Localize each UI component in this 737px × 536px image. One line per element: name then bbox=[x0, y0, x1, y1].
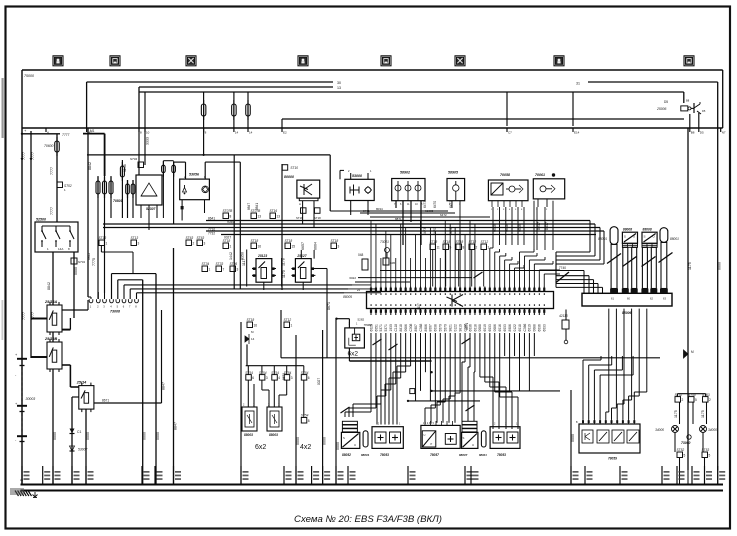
svg-text:0000: 0000 bbox=[156, 432, 160, 440]
svg-text:6019: 6019 bbox=[528, 324, 532, 332]
svg-text:A: A bbox=[299, 202, 301, 206]
svg-text:8847: 8847 bbox=[247, 203, 251, 210]
svg-text:1 1 2 3 4 5: 1 1 2 3 4 5 bbox=[423, 423, 435, 425]
svg-text:6473: 6473 bbox=[423, 228, 427, 235]
svg-text:5570: 5570 bbox=[439, 324, 443, 332]
svg-text:1: 1 bbox=[488, 246, 490, 250]
svg-text:S: S bbox=[644, 235, 646, 239]
svg-text:9819: 9819 bbox=[458, 324, 462, 332]
svg-text:6019: 6019 bbox=[483, 324, 487, 332]
svg-text:3: 3 bbox=[338, 245, 340, 249]
svg-text:1: 1 bbox=[209, 268, 211, 272]
svg-text:6038: 6038 bbox=[434, 324, 438, 332]
svg-text:6018: 6018 bbox=[473, 324, 477, 332]
svg-text:23: 23 bbox=[357, 288, 361, 292]
svg-text:5: 5 bbox=[684, 454, 686, 458]
svg-text:6036: 6036 bbox=[538, 324, 542, 332]
svg-text:8986: 8986 bbox=[424, 324, 428, 332]
svg-text:C1: C1 bbox=[77, 430, 81, 434]
svg-text:C088: C088 bbox=[419, 323, 423, 331]
svg-text:ST10: ST10 bbox=[290, 166, 298, 170]
svg-text:7732: 7732 bbox=[208, 232, 215, 236]
svg-text:30003: 30003 bbox=[26, 397, 36, 401]
svg-text:048: 048 bbox=[358, 253, 364, 257]
svg-text:S: S bbox=[343, 436, 345, 440]
svg-text:3: 3 bbox=[237, 268, 239, 272]
svg-text:U: U bbox=[633, 235, 635, 239]
svg-text:ST18: ST18 bbox=[314, 216, 321, 220]
svg-text:5371: 5371 bbox=[384, 324, 388, 332]
svg-text:14: 14 bbox=[249, 131, 253, 135]
svg-text:1146: 1146 bbox=[123, 164, 127, 172]
svg-text:16: 16 bbox=[258, 245, 262, 249]
svg-text:8: 8 bbox=[230, 215, 232, 219]
svg-text:2: 2 bbox=[682, 398, 684, 402]
svg-text:53056: 53056 bbox=[189, 173, 200, 177]
svg-text:1175: 1175 bbox=[688, 262, 692, 270]
svg-text:8007: 8007 bbox=[429, 324, 433, 332]
svg-text:D5: D5 bbox=[700, 131, 704, 135]
svg-text:8: 8 bbox=[308, 419, 310, 423]
svg-text:6472: 6472 bbox=[449, 201, 453, 208]
svg-text:8841: 8841 bbox=[255, 203, 259, 210]
svg-text:13: 13 bbox=[337, 86, 341, 90]
svg-text:6: 6 bbox=[308, 376, 310, 380]
svg-text:Схема № 20: EBS F3A/F3B (ВКЛ): Схема № 20: EBS F3A/F3B (ВКЛ) bbox=[294, 514, 442, 525]
svg-text:88003: 88003 bbox=[269, 433, 278, 437]
svg-text:88003: 88003 bbox=[244, 433, 253, 437]
svg-text:8842: 8842 bbox=[87, 253, 91, 260]
svg-text:6016: 6016 bbox=[498, 324, 502, 332]
svg-text:8671: 8671 bbox=[327, 302, 331, 310]
svg-text:0000: 0000 bbox=[143, 432, 147, 440]
svg-text:3: 3 bbox=[204, 242, 206, 246]
svg-text:31: 31 bbox=[576, 82, 580, 86]
svg-text:C118: C118 bbox=[394, 324, 398, 332]
svg-text:0000: 0000 bbox=[86, 432, 90, 440]
svg-text:8847: 8847 bbox=[174, 422, 178, 430]
svg-text:E14: E14 bbox=[574, 131, 580, 135]
svg-text:9046: 9046 bbox=[227, 220, 234, 224]
svg-text:52307: 52307 bbox=[146, 207, 157, 211]
svg-text:8817: 8817 bbox=[545, 222, 549, 230]
svg-text:7775: 7775 bbox=[92, 258, 96, 266]
svg-text:6470: 6470 bbox=[433, 228, 437, 235]
svg-text:70801: 70801 bbox=[113, 199, 123, 203]
svg-text:5: 5 bbox=[709, 454, 711, 458]
svg-text:0088: 0088 bbox=[533, 324, 537, 332]
svg-text:6033: 6033 bbox=[503, 324, 507, 332]
svg-text:16: 16 bbox=[254, 324, 258, 328]
svg-text:78059: 78059 bbox=[608, 457, 617, 461]
svg-text:B8: B8 bbox=[686, 99, 690, 103]
svg-text:6657: 6657 bbox=[301, 242, 305, 250]
svg-text:0000: 0000 bbox=[336, 442, 340, 450]
svg-text:ST01: ST01 bbox=[78, 260, 86, 264]
svg-text:30: 30 bbox=[337, 81, 341, 85]
svg-text:0000: 0000 bbox=[74, 267, 78, 275]
svg-text:88008: 88008 bbox=[643, 228, 652, 232]
svg-text:7777: 7777 bbox=[22, 312, 26, 320]
svg-text:8034: 8034 bbox=[376, 207, 383, 211]
svg-text:7740: 7740 bbox=[559, 266, 566, 270]
svg-text:11: 11 bbox=[437, 246, 441, 250]
svg-text:4x2: 4x2 bbox=[300, 444, 311, 451]
svg-text:2: 2 bbox=[193, 242, 195, 246]
svg-text:U: U bbox=[424, 433, 426, 437]
svg-text:8641: 8641 bbox=[208, 217, 215, 221]
svg-text:1175: 1175 bbox=[674, 410, 678, 418]
svg-text:8471: 8471 bbox=[363, 209, 370, 213]
svg-text:8986: 8986 bbox=[508, 324, 512, 332]
svg-text:5282: 5282 bbox=[358, 318, 365, 322]
svg-text:53000: 53000 bbox=[352, 174, 362, 178]
svg-text:25/13B: 25/13B bbox=[44, 337, 58, 341]
svg-text:S: S bbox=[624, 235, 626, 239]
svg-text:52500: 52500 bbox=[36, 218, 46, 222]
svg-text:5371: 5371 bbox=[379, 324, 383, 332]
svg-text:0086: 0086 bbox=[404, 324, 408, 332]
svg-text:1442: 1442 bbox=[229, 252, 233, 260]
svg-text:8217: 8217 bbox=[537, 222, 541, 230]
svg-text:78060: 78060 bbox=[364, 323, 373, 327]
svg-text:6664: 6664 bbox=[314, 242, 318, 250]
svg-text:M1: M1 bbox=[90, 129, 95, 133]
svg-text:A1: A1 bbox=[20, 478, 24, 482]
svg-text:6472: 6472 bbox=[449, 228, 453, 235]
svg-text:88007: 88007 bbox=[459, 453, 468, 457]
svg-text:5: 5 bbox=[695, 398, 697, 402]
svg-text:8871: 8871 bbox=[465, 323, 469, 330]
svg-text:C7: C7 bbox=[508, 131, 512, 135]
svg-text:25/13A: 25/13A bbox=[44, 300, 58, 304]
svg-text:78057: 78057 bbox=[430, 453, 439, 457]
svg-text:E2: E2 bbox=[283, 131, 287, 135]
svg-text:73008: 73008 bbox=[110, 310, 120, 314]
svg-text:80000: 80000 bbox=[284, 175, 294, 179]
svg-text:6472: 6472 bbox=[440, 213, 447, 217]
svg-text:1117: 1117 bbox=[417, 303, 421, 310]
svg-text:88001: 88001 bbox=[670, 237, 679, 241]
svg-text:1: 1 bbox=[230, 245, 232, 249]
svg-text:7777: 7777 bbox=[62, 133, 70, 137]
svg-text:N7: N7 bbox=[722, 131, 726, 135]
svg-text:C008: C008 bbox=[409, 323, 413, 331]
svg-text:8671: 8671 bbox=[282, 373, 286, 380]
svg-text:0122: 0122 bbox=[513, 324, 517, 332]
svg-text:S: S bbox=[463, 436, 465, 440]
svg-text:2: 2 bbox=[709, 398, 711, 402]
svg-text:53007: 53007 bbox=[78, 448, 88, 452]
svg-text:0000: 0000 bbox=[296, 437, 300, 445]
svg-text:15: 15 bbox=[292, 245, 296, 249]
svg-text:6018: 6018 bbox=[518, 324, 522, 332]
svg-text:0086: 0086 bbox=[493, 324, 497, 332]
svg-text:70058: 70058 bbox=[500, 173, 510, 177]
svg-text:8987: 8987 bbox=[414, 324, 418, 332]
svg-text:14: 14 bbox=[235, 131, 239, 135]
svg-text:0000: 0000 bbox=[53, 432, 57, 440]
svg-text:78053: 78053 bbox=[497, 453, 506, 457]
svg-text:1: 1 bbox=[106, 242, 108, 246]
svg-text:1: 1 bbox=[291, 324, 293, 328]
svg-text:34000: 34000 bbox=[655, 428, 664, 432]
svg-text:88052: 88052 bbox=[342, 453, 351, 457]
svg-text:61005: 61005 bbox=[425, 209, 434, 213]
svg-text:8847: 8847 bbox=[162, 382, 166, 390]
svg-text:73000: 73000 bbox=[681, 441, 691, 445]
svg-text:3: 3 bbox=[291, 376, 293, 380]
svg-text:8842: 8842 bbox=[88, 162, 92, 170]
svg-text:U: U bbox=[472, 443, 474, 447]
svg-text:42113: 42113 bbox=[559, 314, 568, 318]
svg-text:7: 7 bbox=[223, 268, 225, 272]
svg-text:7777: 7777 bbox=[50, 167, 54, 175]
svg-text:M: M bbox=[691, 350, 694, 354]
svg-text:8842: 8842 bbox=[47, 282, 51, 290]
svg-text:13: 13 bbox=[277, 215, 281, 219]
svg-text:70061: 70061 bbox=[535, 173, 545, 177]
svg-text:13: 13 bbox=[258, 215, 262, 219]
svg-text:25006: 25006 bbox=[656, 107, 667, 111]
svg-text:0122: 0122 bbox=[453, 324, 457, 332]
svg-text:7777: 7777 bbox=[50, 207, 54, 215]
svg-text:ST04: ST04 bbox=[130, 157, 138, 161]
svg-text:ST18: ST18 bbox=[296, 216, 303, 220]
svg-text:0088: 0088 bbox=[478, 324, 482, 332]
svg-text:U: U bbox=[354, 443, 356, 447]
svg-text:6473: 6473 bbox=[423, 201, 427, 208]
svg-text:10: 10 bbox=[146, 131, 150, 135]
svg-text:25/14: 25/14 bbox=[76, 381, 87, 385]
svg-text:2: 2 bbox=[476, 246, 478, 250]
svg-text:6022: 6022 bbox=[349, 276, 356, 280]
svg-text:6: 6 bbox=[252, 376, 254, 380]
svg-text:14: 14 bbox=[251, 337, 255, 341]
svg-text:3: 3 bbox=[138, 242, 140, 246]
svg-text:70600: 70600 bbox=[44, 144, 54, 148]
svg-text:88008: 88008 bbox=[623, 228, 632, 232]
svg-text:58905: 58905 bbox=[448, 171, 459, 175]
svg-text:78053: 78053 bbox=[380, 453, 389, 457]
svg-text:1175: 1175 bbox=[701, 410, 705, 418]
svg-text:6470: 6470 bbox=[433, 201, 437, 208]
svg-text:88005: 88005 bbox=[343, 295, 352, 299]
svg-text:73021: 73021 bbox=[380, 240, 389, 244]
svg-text:0027: 0027 bbox=[317, 378, 321, 385]
svg-text:75000: 75000 bbox=[24, 74, 34, 78]
svg-text:3333: 3333 bbox=[146, 137, 150, 145]
svg-text:8671: 8671 bbox=[102, 399, 109, 403]
svg-text:U: U bbox=[653, 235, 655, 239]
svg-text:6033: 6033 bbox=[488, 324, 492, 332]
svg-text:1170: 1170 bbox=[282, 270, 286, 278]
svg-text:D5: D5 bbox=[664, 100, 668, 104]
svg-text:C086: C086 bbox=[523, 323, 527, 331]
svg-text:4: 4 bbox=[278, 376, 280, 380]
svg-text:88001: 88001 bbox=[361, 453, 370, 457]
svg-text:D5: D5 bbox=[702, 109, 706, 113]
svg-text:25123: 25123 bbox=[257, 254, 267, 258]
svg-text:1117: 1117 bbox=[242, 259, 246, 266]
svg-text:88001: 88001 bbox=[479, 453, 487, 457]
svg-text:8818: 8818 bbox=[399, 324, 403, 332]
svg-text:0000: 0000 bbox=[571, 434, 575, 442]
svg-text:14A: 14A bbox=[58, 247, 63, 251]
svg-text:1930: 1930 bbox=[389, 324, 393, 332]
svg-text:9821: 9821 bbox=[449, 324, 453, 332]
svg-text:0000: 0000 bbox=[323, 437, 327, 445]
svg-text:88006: 88006 bbox=[622, 311, 632, 315]
svg-text:34000: 34000 bbox=[708, 428, 717, 432]
svg-text:5570: 5570 bbox=[444, 324, 448, 332]
svg-text:B8: B8 bbox=[691, 131, 695, 135]
svg-text:P: P bbox=[431, 442, 433, 446]
svg-text:6033: 6033 bbox=[543, 324, 547, 332]
svg-text:58902: 58902 bbox=[400, 171, 410, 175]
svg-text:8: 8 bbox=[463, 246, 465, 250]
svg-text:3: 3 bbox=[266, 376, 268, 380]
svg-text:0000: 0000 bbox=[718, 262, 722, 270]
svg-text:6x2: 6x2 bbox=[255, 444, 266, 451]
svg-text:6051: 6051 bbox=[374, 324, 378, 332]
